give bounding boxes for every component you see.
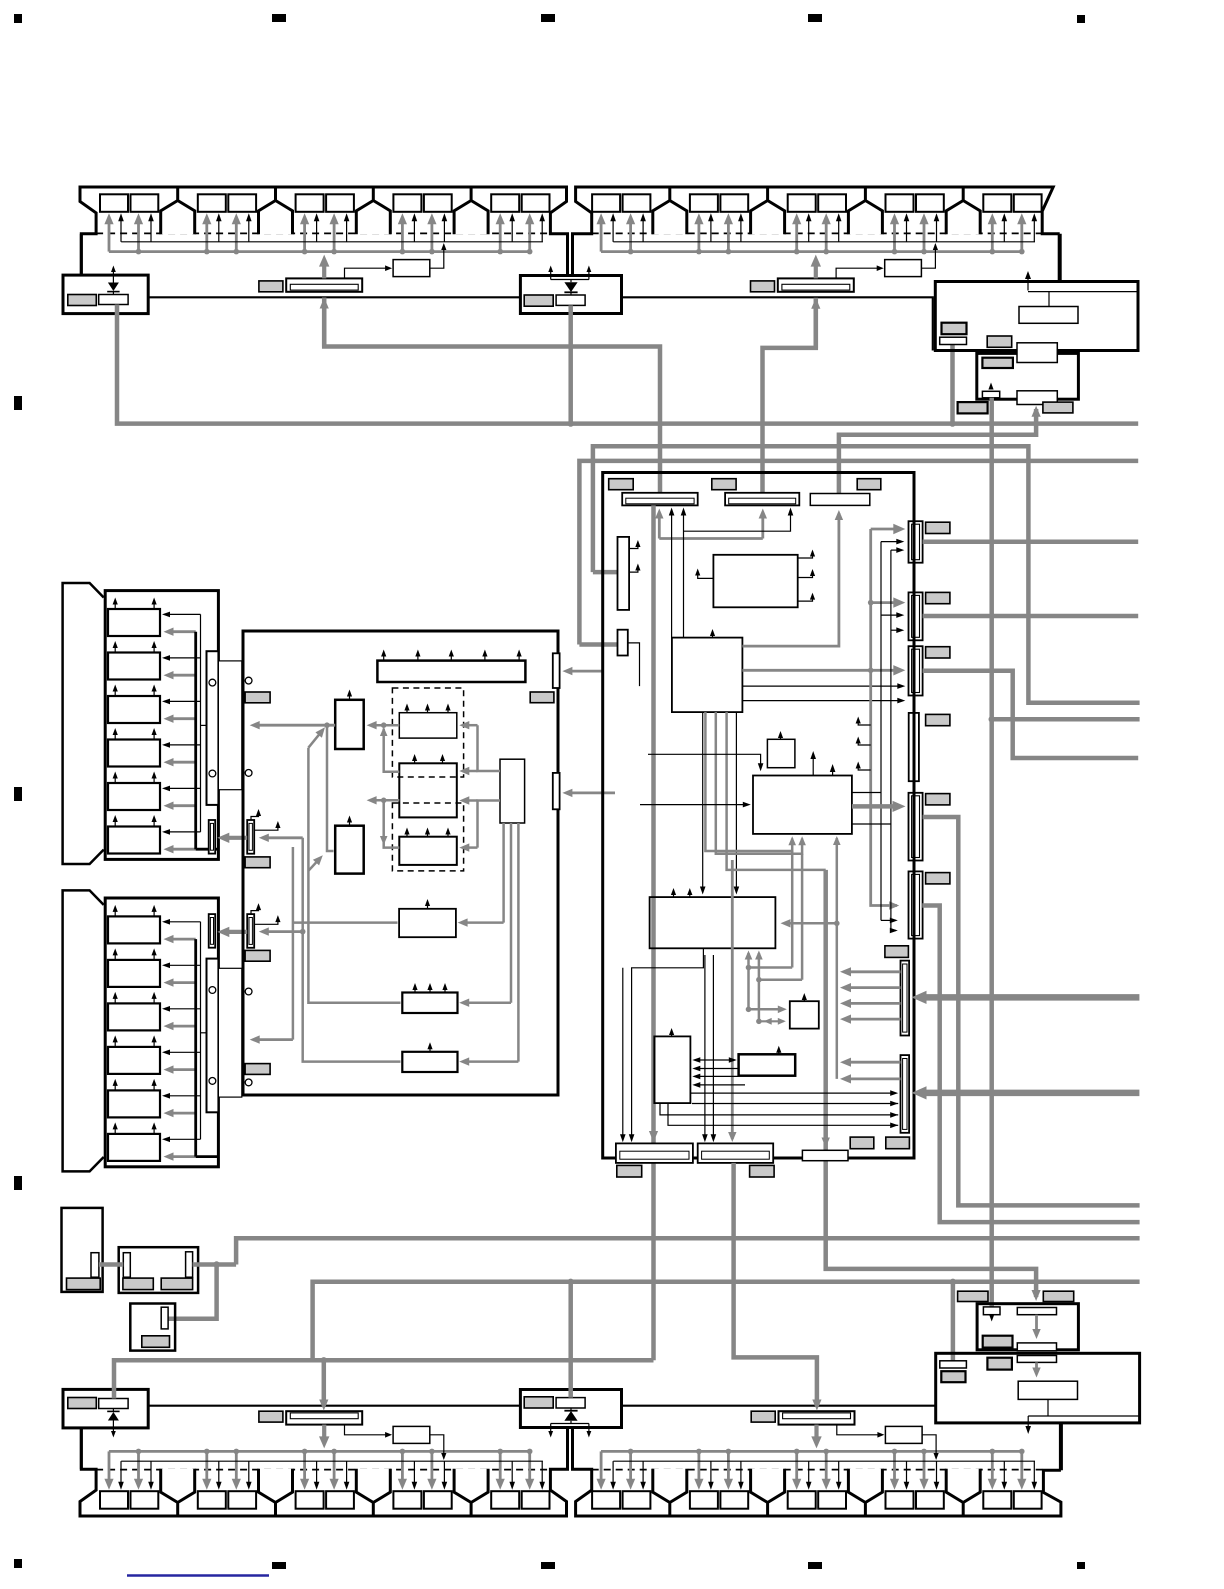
top left bus junction — [204, 249, 210, 255]
bottom right sense wire (black) pair1 — [612, 1461, 614, 1485]
amp IC3 arrow — [447, 831, 449, 836]
top muting link line left — [148, 296, 520, 298]
bottom right speaker terminal block 3 — [848, 1469, 882, 1503]
edge connector CN202 — [909, 592, 923, 640]
amp board edge connector R1 — [553, 653, 560, 688]
top left relay/terminal pair 4 — [393, 194, 421, 212]
top right sense wire (black) pair2 — [710, 218, 712, 242]
CN203 label — [926, 647, 950, 658]
audio data drop a — [791, 851, 794, 968]
top center muting transistor box — [556, 295, 585, 305]
bottom left relay output wire — [430, 1435, 444, 1459]
block B feed vertical — [327, 725, 334, 851]
mid box M2 — [402, 993, 457, 1014]
link pair 1 gray wire to board — [264, 836, 302, 839]
top right speaker wire (gray) pair5 — [1020, 219, 1023, 251]
speaker group 1 driver box 5 — [108, 783, 160, 810]
top right bus junction — [628, 249, 634, 255]
speaker group 1 ribbon — [218, 661, 241, 790]
clock box — [767, 739, 795, 767]
driver box arrow b — [153, 996, 155, 1004]
top center muting arrow up 1 — [550, 269, 552, 279]
top left bus junction — [497, 249, 503, 255]
amp board label 4 — [245, 1064, 270, 1075]
driver box arrow b — [153, 1126, 155, 1134]
top left sense wire (black) pair1 — [120, 218, 122, 242]
bottom CN2 black feeds — [704, 955, 706, 1140]
top left terminal board outline — [80, 187, 568, 276]
bottom center muting transistor box — [556, 1398, 585, 1408]
driver signal wire (gray) — [169, 938, 196, 941]
preout left rail — [292, 847, 295, 1040]
bottom left speaker wire (gray) pair4 — [430, 1451, 433, 1483]
CN1 black risers — [671, 512, 673, 638]
bottom right relay/terminal pair 2 — [690, 1491, 718, 1509]
amp IC box 2 (bridging) — [399, 763, 457, 817]
top center muting/protection block — [520, 276, 621, 314]
M2 arrow — [414, 987, 416, 993]
bottom right bus junction — [892, 1449, 898, 1455]
bottom left board dashed line — [96, 1469, 550, 1471]
status arrows into CN206 — [881, 919, 896, 921]
registration mark top 4 — [808, 14, 822, 22]
bottom left bus junction — [331, 1449, 337, 1455]
ADC right stub — [798, 552, 813, 559]
bottom left sense wire (black) pair2 — [218, 1461, 220, 1485]
top right relay/terminal pair 5 — [983, 194, 1011, 212]
bottom right sense wire (black) pair3 — [808, 1461, 810, 1485]
K drop 1 — [502, 823, 505, 923]
driver box arrow a — [114, 688, 116, 696]
driver box arrow a — [114, 819, 116, 827]
LB label 2 (bordered) — [987, 1358, 1012, 1370]
mid box M1 — [399, 909, 456, 937]
wire B2 to rail — [217, 1262, 237, 1267]
CPU to CN203 wire b — [742, 700, 901, 702]
B3 label — [142, 1336, 170, 1348]
clock top arrow — [780, 735, 782, 739]
bottom left bus junction — [204, 1449, 210, 1455]
bottom right relay/terminal pair 5 — [983, 1491, 1011, 1509]
driver box arrow b — [153, 601, 155, 609]
D1 output a — [846, 970, 900, 973]
comm trunk arrow into CN203 — [871, 669, 899, 672]
bus bar arrow — [383, 653, 385, 660]
CPU top arrow — [712, 633, 714, 638]
bottom center muting/protection block — [520, 1390, 621, 1428]
block B arrow — [349, 819, 351, 825]
junction block A rail — [381, 722, 387, 728]
amp board top bus bar — [377, 661, 525, 682]
power label below left (bordered) — [958, 402, 988, 413]
speaker group 2 driver box 1 — [108, 916, 160, 943]
bottom left speaker wire (gray) pair4 — [401, 1451, 404, 1483]
TB-SB bidir bus — [695, 1059, 736, 1061]
UB connector bottom — [1017, 1343, 1056, 1351]
DSP top arrow b — [689, 892, 691, 897]
top right speaker wire (gray) pair5 — [991, 219, 994, 251]
amp IC2 arrow — [414, 758, 416, 763]
driver box arrow b — [153, 819, 155, 827]
B1 connector — [91, 1253, 99, 1278]
amp IC3 to rail wire — [384, 802, 400, 848]
link connector pair 2 left — [209, 914, 216, 948]
block A input rail — [255, 724, 335, 727]
amp IC1 arrow — [427, 707, 429, 712]
top right bus junction — [726, 249, 732, 255]
junction aux trunk — [300, 929, 306, 935]
top right center connector CN — [778, 278, 854, 291]
bottom right sense wire (black) pair1 — [642, 1461, 644, 1485]
registration mark top-right — [1077, 15, 1085, 23]
arrow into amp IC2 upper — [465, 770, 478, 773]
junction lower rail / PS block — [950, 1279, 956, 1285]
top left sense wire (black) pair2 — [218, 218, 220, 242]
registration mark bottom-right — [1077, 1562, 1085, 1569]
memory box SB — [739, 1054, 796, 1075]
internal connector D2 — [901, 1055, 910, 1133]
top right speaker wire (gray) pair4 — [893, 219, 896, 251]
speaker group 2 driver box 3 — [108, 1003, 160, 1030]
bottom left gray distribution bus — [109, 1450, 531, 1453]
UB label above right — [1043, 1291, 1073, 1301]
driver box arrow a — [114, 601, 116, 609]
bottom left relay/terminal pair 4 — [393, 1491, 421, 1509]
top left speaker wire (gray) pair3 — [333, 219, 336, 251]
top left muting transistor box — [99, 295, 128, 305]
arrow into power block lower connector — [1032, 406, 1041, 417]
top right sense wire (black) pair2 — [740, 218, 742, 242]
top left speaker wire (gray) pair2 — [205, 219, 208, 251]
top left sense wire (black) pair4 — [413, 218, 415, 242]
amp IC2 arrow — [442, 758, 444, 763]
bottom left relay/terminal pair 5 — [491, 1491, 519, 1509]
junction main rail / center drop — [568, 420, 574, 426]
bottom left speaker wire (gray) pair2 — [235, 1451, 238, 1483]
top right speaker wire (gray) pair2 — [698, 219, 701, 251]
block A output wire — [372, 724, 399, 727]
top center muting arrow up 2 — [588, 269, 590, 279]
speaker group 2 black trunk jog — [201, 1032, 207, 1034]
bottom right speaker terminal block 2 — [751, 1469, 785, 1503]
bottom left bus junction — [302, 1449, 308, 1455]
driver signal wire (gray) — [169, 761, 196, 764]
top right sense wire (black) pair1 — [612, 218, 614, 242]
bus: PS sense drop — [951, 1282, 956, 1361]
speaker group 2 driver box 2 — [108, 960, 160, 987]
driver box arrow a — [114, 909, 116, 917]
bus line to D2 d — [668, 1103, 898, 1125]
bottom left relay box — [393, 1426, 430, 1443]
bus: standby power long rail — [989, 398, 994, 1307]
amp IC box 3 — [399, 837, 457, 865]
bottom left black distribution bus — [121, 1460, 543, 1462]
driver signal wire (gray) — [169, 1155, 196, 1158]
driver signal wire (gray) — [169, 804, 196, 807]
connector L2 — [618, 630, 628, 656]
status vertical b — [890, 550, 892, 930]
board label bottom right b — [886, 1137, 910, 1149]
B2 label b — [161, 1278, 192, 1290]
top right speaker terminal block 4 — [946, 201, 980, 235]
top left gray distribution bus — [109, 250, 531, 253]
M1 input wire — [293, 921, 398, 924]
top right sense wire (black) pair3 — [808, 218, 810, 242]
top left feed arrow to bus — [322, 261, 326, 278]
speaker group 2 black trunk — [200, 922, 202, 1140]
driver signal wire (black) — [166, 921, 200, 923]
bottom right bus junction — [794, 1449, 800, 1455]
bottom left bus junction — [400, 1449, 406, 1455]
bottom left terminal board outline — [80, 1428, 568, 1517]
bus: CN203 rail right — [923, 671, 1139, 758]
link pair 2 stub arrow b — [254, 917, 278, 924]
registration mark bottom-left — [14, 1559, 22, 1568]
driver signal wire (black) — [166, 613, 200, 615]
power block internal rail — [1028, 291, 1137, 293]
amp board edge connector R2 — [553, 773, 560, 809]
driver box arrow b — [153, 688, 155, 696]
bottom right bus junction — [726, 1449, 732, 1455]
top right bus junction — [1019, 249, 1025, 255]
internal connector D1 — [901, 961, 910, 1036]
top left speaker wire (gray) pair1 — [137, 219, 140, 251]
bus line to D2 c — [660, 1103, 898, 1115]
bus: 434 rail to power connector — [839, 409, 1036, 494]
feed arrowhead into left center connector — [320, 298, 329, 309]
CNB2 label — [750, 1165, 775, 1177]
link pair 2 gray arrow — [224, 930, 247, 934]
top left bus junction — [136, 249, 142, 255]
edge connector CN205 — [909, 793, 923, 861]
top right sense wire (black) pair5 — [1033, 218, 1035, 242]
DAC left input — [640, 804, 746, 806]
amp IC2 to rail wire — [384, 729, 400, 772]
CN2 black riser branch — [684, 510, 791, 531]
bus bar arrow — [518, 653, 520, 660]
registration mark bottom 4 — [808, 1562, 822, 1569]
top left sense wire (black) pair3 — [316, 218, 318, 242]
bottom left bus junction — [497, 1449, 503, 1455]
DSP riser b — [758, 953, 761, 1021]
B3 connector — [161, 1307, 168, 1329]
CPU to comm trunk wire — [742, 669, 870, 672]
CN2 riser arrow — [761, 514, 764, 539]
power block sense arrow up — [1027, 275, 1029, 290]
TB input a — [697, 1068, 739, 1070]
speaker group 2 board — [105, 898, 218, 1167]
bottom left sense wire (black) pair3 — [316, 1461, 318, 1485]
link connector pair 1 left — [209, 820, 216, 854]
bottom right speaker wire (gray) pair5 — [991, 1451, 994, 1483]
DAC top riser b — [832, 768, 834, 775]
top left sense wire (black) pair5 — [511, 218, 513, 242]
driver box arrow b — [153, 1083, 155, 1091]
preamp block B — [335, 826, 364, 874]
bus: standby lower rail — [313, 1282, 1140, 1361]
power supply block U101 — [935, 282, 1138, 351]
DAC box — [753, 776, 852, 834]
ADC right stub — [798, 571, 813, 578]
CPU down wire k1 — [702, 712, 704, 890]
bottom right board dashed line — [592, 1469, 1042, 1471]
top band right feed column — [1058, 234, 1062, 282]
UB input arrow — [991, 1315, 993, 1318]
top right bus junction — [696, 249, 702, 255]
amp IC3 arrow — [427, 831, 429, 836]
driver signal wire (gray) — [169, 981, 196, 984]
bottom left speaker terminal block 4 — [454, 1469, 488, 1503]
driver signal wire (black) — [166, 787, 200, 789]
top left speaker wire (gray) pair2 — [235, 219, 238, 251]
top right board dashed line — [592, 232, 1042, 234]
speaker group 1 board — [105, 591, 218, 860]
bottom connector CNB3 — [802, 1150, 848, 1160]
driver box arrow b — [153, 732, 155, 740]
speaker group 1 black trunk — [200, 614, 202, 832]
B2 connector right — [186, 1252, 193, 1277]
amp board label 3 — [245, 950, 270, 961]
power block label 2 — [987, 336, 1012, 347]
speaker group 2 gray link to connector — [196, 1155, 219, 1158]
top left relay box — [393, 260, 430, 277]
bottom right relay box — [885, 1426, 922, 1443]
registration mark top-left — [14, 14, 22, 23]
bottom CN2 gray feed — [731, 860, 734, 1139]
bottom center muting label — [524, 1397, 553, 1408]
amp IC3 arrow — [406, 831, 408, 836]
top right bus junction — [892, 249, 898, 255]
LB sense box — [940, 1361, 967, 1368]
top left relay input wire — [345, 268, 389, 278]
top right bus junction — [794, 249, 800, 255]
D2 output a — [846, 1061, 900, 1064]
TB input b — [697, 1075, 739, 1077]
top right bus junction — [823, 249, 829, 255]
LB label (bordered) — [941, 1371, 965, 1382]
L1 stub a — [629, 542, 638, 549]
board hole c — [245, 988, 252, 995]
driver box arrow a — [114, 645, 116, 653]
D2 output b — [846, 1078, 900, 1081]
speaker group 1 connector strip — [207, 651, 219, 805]
driver box arrow a — [114, 732, 116, 740]
driver signal wire (gray) — [169, 1025, 196, 1028]
amp IC box 1 — [399, 713, 457, 738]
remote block B3 — [130, 1304, 175, 1351]
bottom left muting transistor box — [99, 1399, 128, 1409]
driver box arrow b — [153, 645, 155, 653]
bottom left center connector CN — [286, 1411, 362, 1424]
edge connector CN204 — [909, 713, 919, 781]
bottom left speaker wire (gray) pair1 — [137, 1451, 140, 1483]
bottom center muting arrow down 1 — [550, 1424, 552, 1434]
top right relay/terminal pair 2 — [690, 194, 718, 212]
comm trunk arrow into CN201 — [871, 528, 899, 531]
driver signal wire (gray) — [169, 717, 196, 720]
junction lower rail / center muting — [568, 1279, 574, 1285]
diagonal tap 1 — [308, 732, 321, 748]
amp board label 1 — [245, 692, 270, 703]
LB AC output arrow — [1027, 1416, 1029, 1431]
CN202 label — [926, 592, 950, 603]
bus: standby branch right — [992, 717, 1140, 722]
junction tuner rail / CNB3 drop — [823, 1235, 829, 1241]
bus: CN205 rail down-right — [923, 817, 1140, 1205]
top right relay output wire — [921, 245, 935, 269]
M3 arrow — [429, 1046, 431, 1052]
bottom left relay/terminal pair 1 — [100, 1491, 128, 1509]
bottom right bus junction — [921, 1449, 927, 1455]
diagonal tap 2 — [308, 859, 319, 871]
status arrows into CN202 — [881, 614, 900, 616]
block B output wire — [372, 799, 399, 802]
riser link a — [749, 966, 793, 969]
CN1-CN2 gray link — [659, 537, 763, 540]
driver signal wire (black) — [166, 657, 200, 659]
comm trunk — [871, 529, 897, 906]
aux trunk — [303, 838, 401, 1062]
flash box TB — [654, 1036, 690, 1103]
top right speaker terminal block 1 — [653, 201, 687, 235]
driver signal wire (black) — [166, 831, 200, 833]
SB top arrow — [778, 1050, 780, 1055]
amp IC1 arrow — [406, 707, 408, 712]
bus: CN202 rail right — [923, 614, 1139, 619]
DSP ext wire 2 — [622, 968, 624, 1140]
bottom right relay/terminal pair 1 — [592, 1491, 620, 1509]
driver signal wire (black) — [166, 1138, 200, 1140]
CPU to CN3 wire — [742, 513, 839, 646]
DAC right stub a — [852, 792, 881, 794]
ADC right stub — [798, 595, 813, 602]
top center muting diode D2 — [564, 282, 577, 292]
LB transformer box — [1018, 1381, 1077, 1399]
xtal feed arrow — [749, 1008, 782, 1011]
driver signal wire (black) — [166, 1095, 200, 1097]
top left sense wire (black) pair5 — [541, 218, 543, 242]
driver box arrow b — [153, 909, 155, 917]
top center muting label — [524, 295, 553, 306]
bottom left speaker terminal block 3 — [356, 1469, 390, 1503]
bottom left relay input wire — [345, 1425, 389, 1435]
xtal box — [790, 1001, 819, 1028]
ADC box — [713, 555, 797, 608]
top left speaker wire (gray) pair5 — [499, 219, 502, 251]
driver signal wire (black) — [166, 1051, 200, 1053]
UB internal arrow — [1035, 1315, 1038, 1334]
top right feed arrow to bus — [814, 261, 818, 278]
bus line to D2 a — [690, 1092, 893, 1094]
bus: left center connector to DSP board CN1 — [324, 303, 660, 493]
junction block B rail — [381, 798, 387, 804]
top right speaker wire (gray) pair1 — [600, 219, 603, 251]
CNB1 label — [617, 1165, 642, 1177]
xtal bidir arrow — [759, 1020, 784, 1022]
DAC riser — [836, 838, 839, 1079]
bus line to D2 b — [692, 1103, 898, 1105]
wire into R2 from DSP board — [568, 792, 615, 795]
top right relay box — [885, 260, 922, 277]
driver signal wire (gray) — [169, 674, 196, 677]
link pair 2 gray wire to board — [264, 930, 302, 933]
bus: right center connector to DSP board CN2 — [763, 303, 816, 493]
top left speaker wire (gray) pair4 — [401, 219, 404, 251]
AC select block U102 — [977, 353, 1079, 399]
edge connector CN206 — [909, 871, 923, 938]
arrowhead into bottom CN3 — [822, 1138, 830, 1148]
strip screw hole b — [209, 1078, 216, 1085]
